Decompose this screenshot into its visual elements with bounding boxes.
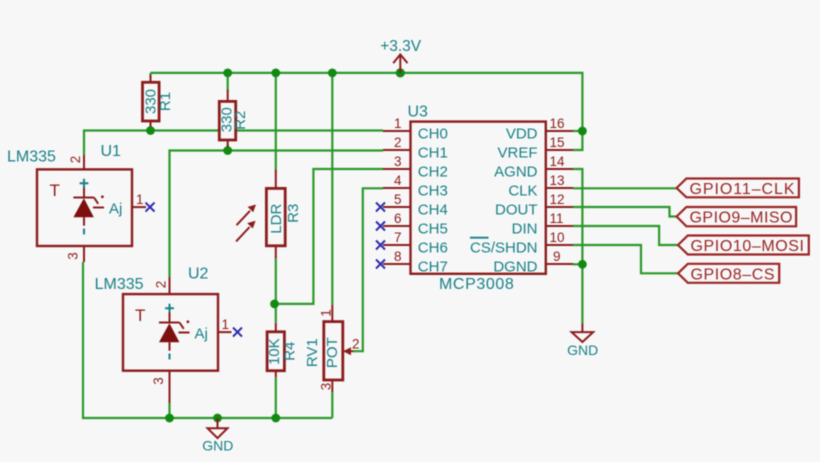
svg-text:DGND: DGND bbox=[493, 259, 537, 276]
svg-text:GND: GND bbox=[202, 438, 233, 454]
svg-text:15: 15 bbox=[550, 135, 565, 150]
svg-text:AGND: AGND bbox=[494, 164, 538, 181]
svg-text:LM335: LM335 bbox=[95, 276, 144, 293]
svg-text:7: 7 bbox=[394, 230, 402, 245]
svg-text:12: 12 bbox=[550, 192, 565, 207]
svg-text:14: 14 bbox=[550, 154, 566, 169]
svg-text:CH0: CH0 bbox=[418, 126, 448, 143]
svg-text:11: 11 bbox=[550, 211, 564, 226]
svg-text:CS/SHDN: CS/SHDN bbox=[470, 240, 538, 257]
svg-text:1: 1 bbox=[319, 309, 334, 317]
svg-text:DIN: DIN bbox=[512, 221, 538, 238]
svg-text:R4: R4 bbox=[282, 342, 299, 361]
svg-text:MCP3008: MCP3008 bbox=[439, 276, 514, 293]
svg-text:Aj: Aj bbox=[195, 326, 208, 343]
svg-text:3: 3 bbox=[151, 377, 166, 385]
svg-text:8: 8 bbox=[394, 249, 402, 264]
svg-text:1: 1 bbox=[394, 116, 402, 131]
svg-text:CH2: CH2 bbox=[418, 164, 448, 181]
svg-text:9: 9 bbox=[553, 249, 561, 264]
svg-text:GPIO8–CS: GPIO8–CS bbox=[691, 266, 775, 283]
svg-text:CLK: CLK bbox=[508, 183, 537, 200]
svg-text:2: 2 bbox=[68, 156, 83, 164]
svg-text:RV1: RV1 bbox=[304, 338, 321, 367]
svg-text:2: 2 bbox=[394, 135, 402, 150]
svg-text:VREF: VREF bbox=[497, 145, 537, 162]
svg-text:U1: U1 bbox=[101, 143, 122, 160]
svg-text:R2: R2 bbox=[232, 111, 249, 130]
svg-text:Aj: Aj bbox=[109, 201, 122, 218]
svg-text:1: 1 bbox=[222, 317, 230, 332]
svg-text:+3.3V: +3.3V bbox=[380, 38, 422, 55]
svg-text:T: T bbox=[50, 181, 60, 200]
svg-text:GND: GND bbox=[567, 342, 598, 358]
svg-text:CH1: CH1 bbox=[418, 145, 448, 162]
svg-text:POT: POT bbox=[324, 337, 341, 368]
svg-text:CH4: CH4 bbox=[418, 202, 448, 219]
svg-text:3: 3 bbox=[394, 154, 402, 169]
svg-text:10: 10 bbox=[550, 230, 565, 245]
svg-text:DOUT: DOUT bbox=[495, 202, 538, 219]
svg-text:CH7: CH7 bbox=[418, 259, 448, 276]
svg-text:6: 6 bbox=[394, 211, 402, 226]
svg-text:5: 5 bbox=[394, 192, 402, 207]
svg-text:GPIO10–MOSI: GPIO10–MOSI bbox=[691, 238, 805, 255]
svg-text:2: 2 bbox=[154, 281, 169, 289]
svg-text:16: 16 bbox=[550, 116, 565, 131]
svg-text:U3: U3 bbox=[408, 103, 429, 120]
svg-text:GPIO9–MISO: GPIO9–MISO bbox=[690, 210, 793, 227]
svg-text:1: 1 bbox=[136, 192, 144, 207]
svg-text:R1: R1 bbox=[157, 92, 174, 111]
svg-text:CH5: CH5 bbox=[418, 221, 448, 238]
svg-text:2: 2 bbox=[352, 337, 360, 352]
svg-text:13: 13 bbox=[550, 173, 565, 188]
svg-text:3: 3 bbox=[319, 383, 334, 391]
svg-text:VDD: VDD bbox=[506, 126, 538, 143]
svg-text:LDR: LDR bbox=[268, 204, 285, 234]
svg-text:CH6: CH6 bbox=[418, 240, 448, 257]
svg-text:T: T bbox=[135, 306, 145, 325]
svg-text:10K: 10K bbox=[266, 338, 283, 365]
svg-text:U2: U2 bbox=[188, 266, 209, 283]
svg-text:CH3: CH3 bbox=[418, 183, 448, 200]
svg-text:R3: R3 bbox=[285, 204, 302, 223]
svg-text:4: 4 bbox=[394, 173, 402, 188]
svg-text:3: 3 bbox=[66, 252, 81, 260]
svg-text:LM335: LM335 bbox=[7, 148, 56, 165]
svg-text:GPIO11–CLK: GPIO11–CLK bbox=[690, 181, 795, 198]
